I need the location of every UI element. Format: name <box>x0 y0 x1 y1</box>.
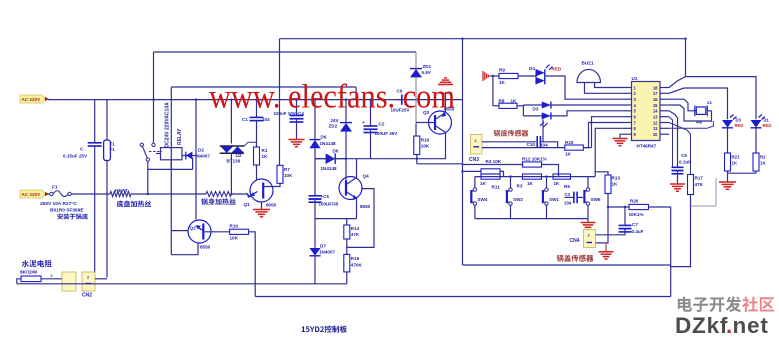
varistor T1 <box>106 100 108 140</box>
svg-text:1K: 1K <box>499 80 506 85</box>
wire pin11 wrap <box>669 121 713 128</box>
resistor R4 10K <box>481 169 500 174</box>
svg-text:C3: C3 <box>565 192 571 197</box>
svg-text:104: 104 <box>564 201 572 206</box>
junction D6a on AC bus <box>314 98 316 100</box>
resistor R7 <box>277 165 283 183</box>
svg-text:D7: D7 <box>320 244 326 249</box>
resistor R3 1K <box>523 174 542 179</box>
svg-text:.: . <box>726 313 732 335</box>
wire Q1 emitter to ground <box>261 202 263 209</box>
svg-text:net: net <box>733 313 769 335</box>
svg-text:47K: 47K <box>695 182 704 187</box>
ground LED resistors <box>719 181 736 183</box>
svg-text:R20: R20 <box>630 199 639 204</box>
wire key row B y=176.6 <box>475 176 595 178</box>
resistor R21 <box>725 153 731 171</box>
diode D7 1N4007 <box>314 219 316 248</box>
resistor R5 1K <box>553 174 571 179</box>
svg-text:AC 220V: AC 220V <box>22 192 42 197</box>
wire pin14 to C6 <box>669 111 678 167</box>
wire pin17 to D3r column <box>669 88 728 119</box>
capacitor C6 0.1uF <box>672 166 684 168</box>
svg-text:1K: 1K <box>760 161 766 166</box>
led D3 dual <box>542 102 551 109</box>
capacitor C3 104 <box>565 196 574 198</box>
switch SW4 <box>474 177 476 188</box>
diode D6a 1N4148 <box>314 100 316 140</box>
resistor R16 <box>414 136 420 155</box>
svg-text:U2: U2 <box>236 153 242 158</box>
svg-text:HEAT: HEAT <box>115 188 128 194</box>
ground U1 pin9 <box>620 134 624 138</box>
IC U1 pin stubs <box>624 87 632 89</box>
wire top rail y=38.7 <box>280 38 686 40</box>
transistor Q1 <box>250 179 273 202</box>
ground Q1 emitter <box>253 209 270 211</box>
node AC 220V neutral terminal <box>20 190 45 198</box>
connector CN4 <box>584 230 596 248</box>
svg-text:14: 14 <box>653 109 658 114</box>
power VCC above Q3 <box>444 77 447 79</box>
led D1 indicator <box>751 120 762 128</box>
svg-text:1K: 1K <box>262 154 269 159</box>
svg-text:R10: R10 <box>230 224 239 229</box>
wire block bottom frame y=265 <box>463 264 671 266</box>
svg-text:5.6V: 5.6V <box>422 70 432 75</box>
wire AC live bus y=99.6 <box>48 99 463 101</box>
wire 24V top rail y=52 <box>154 51 417 53</box>
wire row A cont <box>542 165 559 177</box>
wire D3 row1 to pin4 <box>551 104 624 106</box>
svg-text:R11: R11 <box>492 185 501 190</box>
svg-text:R2: R2 <box>760 155 766 160</box>
svg-text:AC 220V: AC 220V <box>22 97 42 102</box>
svg-text:10K: 10K <box>284 173 293 178</box>
svg-text:4M: 4M <box>696 120 702 125</box>
svg-text:R12 10K1%: R12 10K1% <box>522 157 547 162</box>
transistor Q3 <box>429 111 452 134</box>
svg-text:C6: C6 <box>681 153 687 158</box>
wire D1 to R2 <box>755 128 757 153</box>
junction C7 top <box>624 206 626 208</box>
capacitor C (X-cap 0.15uF) <box>94 100 96 143</box>
svg-text:T1: T1 <box>110 142 116 147</box>
svg-text:R8: R8 <box>499 99 505 104</box>
svg-text:R16: R16 <box>421 138 430 143</box>
wire VCC to R9 <box>490 75 500 77</box>
svg-text:Q1: Q1 <box>244 202 251 207</box>
mechanical link dashes <box>149 151 162 153</box>
capacitor C5 100uF/35 <box>314 159 316 196</box>
led D4 dual <box>536 69 545 76</box>
wire relay contact link <box>148 168 193 170</box>
wire VCC column x=279.5 <box>279 39 281 166</box>
resistor R10 <box>230 229 249 234</box>
resistor R2 <box>753 153 759 171</box>
svg-text:HT46R47: HT46R47 <box>637 144 657 149</box>
svg-text:2: 2 <box>475 139 477 143</box>
fuse F1 <box>48 193 50 195</box>
junction triac on AC bus <box>230 98 232 100</box>
wire CN3 pin2 row <box>482 141 536 143</box>
wire R19 to pin7 column <box>583 123 624 148</box>
zener ZD1 5.6V <box>415 52 417 68</box>
svg-text:F1: F1 <box>52 185 58 191</box>
connector CN1 housing <box>62 272 76 291</box>
led D3 indicator <box>722 120 733 128</box>
wire R4 row <box>463 170 482 172</box>
label pot-body heating wire <box>201 198 236 205</box>
wire CN4 pin2 to C7 <box>596 229 626 235</box>
switch SW1 <box>546 177 548 188</box>
resistor R20 10K1% <box>629 204 649 209</box>
resistor HEAT (bottom plate heater) <box>110 191 131 196</box>
wire R16 bottom to block <box>416 155 418 164</box>
resistor R8 <box>493 105 499 107</box>
svg-text:Q4: Q4 <box>363 174 370 179</box>
connector CN3 <box>471 135 483 155</box>
junction R16 and 12V node <box>416 158 418 160</box>
svg-text:24V: 24V <box>331 118 340 123</box>
resistor pot-body heating wire <box>206 191 231 196</box>
svg-text:1N4148: 1N4148 <box>321 166 338 171</box>
svg-text:x1: x1 <box>707 100 712 105</box>
label board title 15YD2 <box>302 326 347 333</box>
svg-text:0.15uF 25V: 0.15uF 25V <box>63 154 88 159</box>
capacitor C4 220uF/10V <box>296 100 298 115</box>
svg-text:B01R0 SF369E: B01R0 SF369E <box>50 208 84 214</box>
svg-text:12: 12 <box>653 120 658 125</box>
svg-text:R4 10K: R4 10K <box>486 159 502 164</box>
connector CN2 <box>82 272 95 291</box>
crystal X1 <box>669 99 696 111</box>
wire 12V node y=158.7 <box>315 158 446 160</box>
svg-text:11: 11 <box>653 126 658 131</box>
svg-text:D3: D3 <box>736 118 742 123</box>
wire relay drive column x=196 <box>195 100 197 220</box>
wire R20 row y=207 <box>608 206 629 208</box>
wire SW5 bottom <box>587 205 589 218</box>
wire Q2 emitter loop <box>171 243 198 255</box>
svg-text:SW2: SW2 <box>513 197 523 202</box>
svg-text:104: 104 <box>540 143 548 148</box>
svg-text:17: 17 <box>653 91 658 96</box>
resistor R19 <box>565 145 584 150</box>
svg-text:15: 15 <box>653 103 658 108</box>
wire R17 bottom <box>690 195 692 207</box>
junction key row SW1 <box>545 175 547 177</box>
wire left column x=171.3 <box>170 87 172 255</box>
label pot-lid sensor <box>557 255 594 262</box>
svg-text:8K/10W: 8K/10W <box>20 270 38 276</box>
zener ZD2 24V <box>345 100 347 123</box>
node AC 220V live terminal <box>20 95 45 103</box>
wire D3 to R21 <box>727 128 729 153</box>
svg-text:BUZ1: BUZ1 <box>582 61 594 66</box>
capacitor C2 100uF/35V <box>370 100 372 126</box>
junction C1 on AC bus <box>255 98 257 100</box>
wire main VCC drop x=462.5 <box>462 39 464 265</box>
wire 18V rail y=87 <box>171 86 356 88</box>
ground SW5 column <box>587 219 589 222</box>
junction R9 R8 <box>492 75 494 77</box>
svg-text:C1: C1 <box>242 117 248 122</box>
svg-text:R7: R7 <box>284 167 290 172</box>
label bottom-plate heating wire <box>117 201 152 208</box>
junction relay common on AC bus <box>152 98 154 100</box>
wire CN4 pin1 to R13 column <box>596 194 609 243</box>
capacitor C1 snubber <box>256 100 258 117</box>
svg-text:R14: R14 <box>351 226 360 231</box>
transistor Q4 <box>339 177 362 200</box>
svg-text:N4007: N4007 <box>197 153 211 158</box>
diode D6b 1N4148 <box>315 158 326 160</box>
svg-text:18: 18 <box>653 85 658 90</box>
svg-text:Q2: Q2 <box>190 226 197 231</box>
svg-text:C10: C10 <box>527 142 536 147</box>
svg-text:R19: R19 <box>565 140 574 145</box>
wire corner to R17 column <box>671 206 691 267</box>
svg-text:D4: D4 <box>529 66 535 71</box>
svg-text:R5: R5 <box>564 184 570 189</box>
svg-text:R1: R1 <box>262 148 268 153</box>
ground near CN4 right <box>605 243 607 251</box>
junction ZD2 on AC bus <box>345 98 347 100</box>
svg-text:10: 10 <box>653 132 658 137</box>
svg-text:1N4007: 1N4007 <box>319 250 336 255</box>
wire triac to body heater <box>230 153 232 194</box>
svg-text:250V 10A R27°C: 250V 10A R27°C <box>40 201 77 207</box>
resistor R14 <box>344 225 350 239</box>
junction C2 on AC bus <box>369 98 371 100</box>
svg-text:1K: 1K <box>554 181 561 186</box>
svg-text:CN2: CN2 <box>82 293 92 299</box>
wire CN2 pin2 net <box>95 278 107 280</box>
junction VCC drop on top rail <box>461 38 463 40</box>
svg-text:D1: D1 <box>764 118 770 123</box>
power VCC flag for LED rows <box>482 71 484 81</box>
svg-text:16: 16 <box>653 97 658 102</box>
relay contact <box>152 143 155 146</box>
svg-text:2: 2 <box>87 275 89 279</box>
svg-text:470K: 470K <box>351 263 363 268</box>
svg-text:R3: R3 <box>517 184 523 189</box>
label pot-bottom sensor <box>494 130 529 137</box>
wire Q4 collector loop <box>347 189 374 248</box>
svg-text:2: 2 <box>51 274 53 278</box>
svg-text:1K: 1K <box>565 152 572 157</box>
label mounted on pot bottom <box>57 214 87 220</box>
junction top rail x=685.5 <box>684 38 686 40</box>
svg-text:SW4: SW4 <box>477 197 487 202</box>
svg-text:D3: D3 <box>533 107 539 112</box>
wire sensor row lower <box>482 147 565 149</box>
wire key bottoms y=218.6 <box>475 218 588 220</box>
wire pin6 column <box>583 147 591 149</box>
resistor R11 1K <box>481 174 500 179</box>
wire R14 R15 junction <box>346 239 348 254</box>
svg-text:R9: R9 <box>499 68 505 73</box>
wire LED resistors common <box>727 171 729 173</box>
wire pin15 crystal wrap <box>669 105 712 121</box>
wire right column x=670.7 <box>670 207 672 297</box>
svg-text:2: 2 <box>588 234 590 238</box>
svg-text:C7: C7 <box>632 222 638 227</box>
wire pin12 to R17 <box>669 123 691 175</box>
triac U2 BT136 <box>220 145 244 147</box>
svg-text:1K: 1K <box>527 181 534 186</box>
svg-text:ZD2: ZD2 <box>329 124 338 129</box>
svg-text:T1: T1 <box>110 147 116 152</box>
switch SW5 <box>587 177 589 188</box>
wire Q4 emitter to R14 <box>346 219 348 225</box>
svg-text:1K: 1K <box>511 99 518 104</box>
transistor Q2 <box>188 220 211 243</box>
svg-text:10K1%: 10K1% <box>629 212 644 217</box>
svg-text:+C5: +C5 <box>321 194 330 199</box>
resistor R13 <box>605 175 611 194</box>
wire R8 to D3 <box>517 105 523 107</box>
svg-text:0.4uF: 0.4uF <box>632 229 644 234</box>
IC U1 HT46R47 <box>632 82 661 141</box>
svg-text:C2: C2 <box>379 122 385 127</box>
svg-text:D6: D6 <box>333 149 339 154</box>
resistor R9 <box>499 73 518 78</box>
svg-text:D6: D6 <box>321 135 327 140</box>
svg-text:CN4: CN4 <box>570 238 580 244</box>
svg-text:R17: R17 <box>695 176 704 181</box>
junction C4 on AC bus <box>295 98 297 100</box>
svg-text:47K: 47K <box>351 232 360 237</box>
wire R20 to right column <box>649 206 671 208</box>
wire pin8 column <box>595 128 624 176</box>
wire pin18 riser <box>669 39 686 88</box>
svg-text:ZD1: ZD1 <box>423 64 432 69</box>
svg-text:104: 104 <box>262 117 270 122</box>
svg-text:13: 13 <box>653 115 658 120</box>
diode D2 <box>182 155 186 157</box>
svg-text:1N4148: 1N4148 <box>320 141 337 146</box>
relay coil <box>161 148 183 160</box>
svg-text:R13: R13 <box>612 176 621 181</box>
wire Q2 base to R10 <box>205 231 230 233</box>
capacitor C9 coupling <box>401 94 403 104</box>
svg-text:8550: 8550 <box>360 204 371 209</box>
wire relay common drop x=153.5 <box>153 52 155 143</box>
svg-text:8050: 8050 <box>266 203 277 208</box>
wire sensor row A y=164.5 <box>463 164 523 166</box>
svg-text:10K: 10K <box>421 144 430 149</box>
wire gray link <box>691 205 717 207</box>
wire C5 to Q4 emitter y=218.6 <box>315 218 357 220</box>
resistor R12 10K1% <box>523 162 542 167</box>
ground C4 <box>289 139 305 141</box>
svg-text:D2: D2 <box>198 148 204 153</box>
label cement resistor <box>22 260 52 267</box>
svg-text:R15: R15 <box>351 256 360 261</box>
capacitor C10 104 <box>536 136 538 148</box>
svg-text:1K: 1K <box>612 182 619 187</box>
wire neutral segment to body heater <box>131 193 206 195</box>
svg-text:DZkf: DZkf <box>675 313 728 335</box>
svg-text:BT136: BT136 <box>227 159 241 164</box>
wire cement resistor to CN2 <box>41 278 62 280</box>
wire R9 to D4 <box>518 75 536 77</box>
resistor R1 <box>254 147 260 165</box>
capacitor C7 0.4uF <box>624 207 626 225</box>
wire CN2 pin1 bottom bus y=283.8 <box>17 283 347 285</box>
svg-text:RED: RED <box>552 67 562 72</box>
svg-text:RED: RED <box>735 123 744 128</box>
wire Q2 collector stub <box>171 230 188 232</box>
wire R15 to bottom bus <box>346 272 348 284</box>
svg-text:C: C <box>80 147 84 153</box>
svg-text:100UF/35: 100UF/35 <box>319 202 339 207</box>
wire Q1 collector to R7 <box>263 183 280 186</box>
svg-text:U1: U1 <box>632 76 638 81</box>
svg-text:CN3: CN3 <box>469 157 479 163</box>
svg-text:DC24V 220VAC10A: DC24V 220VAC10A <box>165 102 171 148</box>
svg-text:100UF 35V: 100UF 35V <box>375 131 398 136</box>
ground C6 <box>670 183 685 185</box>
svg-text:RED: RED <box>763 123 772 128</box>
wire D4 to pin3 <box>545 76 624 99</box>
wire R1 to Q1 base <box>256 165 258 180</box>
resistor R15 <box>344 254 350 272</box>
wire pin13 stub <box>669 117 673 167</box>
svg-text:10K: 10K <box>230 236 239 241</box>
junction relay drive on AC bus <box>195 98 197 100</box>
wire R13 top to pin8 column <box>595 172 608 175</box>
svg-text:+: + <box>362 121 365 126</box>
wire D3 bottom to sensor row <box>542 119 544 141</box>
svg-text:SW1: SW1 <box>549 197 559 202</box>
svg-text:RELAY: RELAY <box>177 128 183 145</box>
triac U2 column top <box>230 100 232 144</box>
svg-text:0.1uF: 0.1uF <box>679 160 691 165</box>
resistor cement 8K/10W <box>21 276 41 282</box>
svg-text:SW5: SW5 <box>591 197 601 202</box>
svg-text:1K: 1K <box>480 181 487 186</box>
wire D3 row2 to pin5 <box>551 111 624 116</box>
junction key row SW2 <box>509 175 511 177</box>
wire bottom bus y=296.5 <box>255 296 671 298</box>
buzzer BUZ1 <box>577 69 601 82</box>
svg-text:8550: 8550 <box>200 245 211 250</box>
wire body heater to Q1 emitter <box>231 193 248 195</box>
svg-text:1K: 1K <box>732 161 738 166</box>
svg-text:R21: R21 <box>732 155 741 160</box>
wire R10 to bottom bus <box>249 232 256 297</box>
wire R4 to key row <box>500 171 504 176</box>
resistor R17 <box>688 175 694 195</box>
svg-text:www. elecfans. com: www. elecfans. com <box>209 79 455 116</box>
switch SW2 <box>510 177 512 188</box>
junction Q4 base <box>345 158 347 160</box>
logo dzkf site name <box>678 296 742 312</box>
wire pin18 to D1 column <box>686 77 757 120</box>
